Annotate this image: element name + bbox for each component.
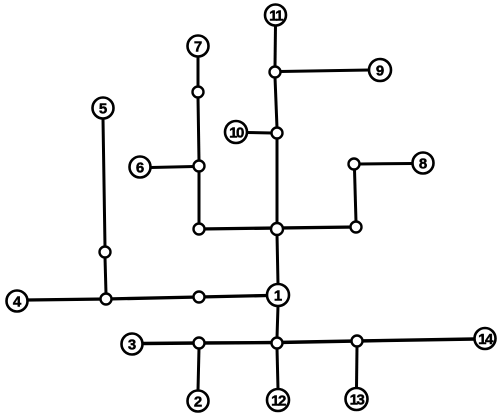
svg-text:4: 4 bbox=[13, 294, 22, 311]
svg-text:2: 2 bbox=[194, 394, 202, 411]
svg-text:3: 3 bbox=[128, 337, 136, 354]
svg-text:12: 12 bbox=[271, 393, 286, 410]
svg-text:8: 8 bbox=[419, 156, 427, 173]
svg-text:11: 11 bbox=[269, 8, 283, 25]
svg-text:10: 10 bbox=[229, 125, 244, 142]
svg-text:1: 1 bbox=[274, 288, 282, 305]
svg-text:6: 6 bbox=[136, 160, 144, 177]
svg-text:7: 7 bbox=[194, 39, 202, 56]
svg-text:5: 5 bbox=[99, 101, 107, 118]
svg-text:9: 9 bbox=[376, 63, 384, 80]
svg-text:14: 14 bbox=[478, 331, 494, 348]
svg-text:13: 13 bbox=[350, 392, 365, 409]
